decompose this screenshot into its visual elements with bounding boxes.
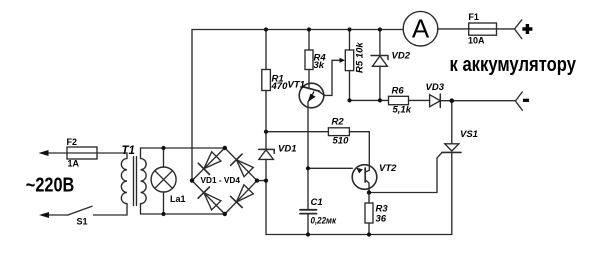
- svg-text:R6: R6: [392, 86, 405, 97]
- svg-text:~220В: ~220В: [26, 175, 75, 197]
- wire: S1 to AC input bottom: [48, 214, 69, 216]
- resistor R6: [389, 96, 409, 104]
- diode VD3: [430, 95, 441, 107]
- svg-text:La1: La1: [170, 194, 186, 204]
- wire: bridge right corner to main column: [257, 180, 266, 182]
- capacitor C1: [300, 210, 317, 214]
- lamp La1: [151, 167, 176, 192]
- wire: R4 to VT1: [308, 70, 310, 85]
- wire: VT1 collector to R5 wiper: [324, 60, 341, 95]
- wire: bottom rail: [266, 234, 452, 236]
- minus sign: [523, 99, 529, 102]
- plus sign: [522, 24, 532, 34]
- svg-text:VD3: VD3: [426, 82, 445, 93]
- wire: R2 row left: [266, 131, 328, 133]
- svg-text:VD1: VD1: [278, 144, 296, 155]
- wire: AC input top lead: [47, 153, 127, 159]
- wire: VT1 emitter down: [307, 102, 309, 168]
- thyristor VS1: [445, 144, 459, 151]
- wire: R4 top lead: [308, 30, 310, 51]
- wire: VS1 anode lead: [451, 101, 453, 144]
- wire: column x266 top rail to R1: [265, 30, 267, 70]
- svg-text:R2: R2: [332, 117, 345, 128]
- svg-text:510: 510: [333, 136, 350, 147]
- wire: top rail: [192, 29, 403, 31]
- svg-text:5,1k: 5,1k: [393, 105, 412, 116]
- bridge edge left-top: [192, 148, 225, 181]
- wire: plus bus vertical (bridge left corner to top rail): [191, 30, 193, 181]
- arrow: R5 wiper: [340, 58, 346, 63]
- wire: T1 primary bottom to S1: [94, 204, 128, 215]
- transformer T1 secondary winding: [141, 159, 147, 204]
- diode VD1 (zener): [259, 149, 275, 153]
- fuse F1: [469, 23, 497, 35]
- wire: VD2 top lead: [379, 30, 381, 56]
- svg-text:C1: C1: [311, 197, 323, 208]
- wire: R6 to VD3: [409, 99, 430, 101]
- resistor R2: [328, 128, 349, 136]
- resistor R3: [365, 203, 373, 223]
- svg-text:VT2: VT2: [379, 163, 397, 174]
- wire: ammeter to F1: [438, 28, 515, 30]
- svg-text:R5 10k: R5 10k: [355, 42, 366, 73]
- diode on LB edge: [204, 193, 221, 210]
- connector: plus terminal: [515, 20, 522, 39]
- wire: VS1 cathode to bottom rail: [451, 152, 453, 234]
- junction dots: [264, 27, 268, 31]
- wire: secondary top to bridge top corner: [141, 148, 225, 159]
- fuse F2: [67, 147, 97, 159]
- wire: VT1 emitter to VT2 base row: [308, 167, 352, 169]
- wire: C1 top lead: [307, 168, 309, 209]
- svg-text:F1: F1: [468, 12, 479, 22]
- svg-text:к аккумулятору: к аккумулятору: [450, 54, 577, 76]
- wire: R2 to VT2 collector: [349, 132, 369, 166]
- diode on BR edge: [236, 185, 253, 202]
- bridge edge left-bottom: [192, 181, 225, 214]
- arrow: AC input bottom: [39, 212, 49, 218]
- wire: R3 to bottom rail: [368, 223, 370, 235]
- arrow: AC input top: [39, 150, 49, 156]
- wire: VD3 to minus terminal: [440, 100, 515, 102]
- svg-text:VD1 - VD4: VD1 - VD4: [201, 175, 241, 185]
- bridge edge top-right: [225, 148, 257, 181]
- svg-text:S1: S1: [77, 217, 88, 227]
- potentiometer R5: [345, 50, 353, 71]
- resistor R4: [305, 50, 313, 70]
- diode on TR edge: [236, 160, 253, 177]
- wire: VD1 to bottom rail: [265, 159, 267, 234]
- svg-text:1A: 1A: [68, 159, 80, 169]
- bridge edge bottom-right: [225, 181, 257, 214]
- svg-text:T1: T1: [122, 145, 135, 157]
- svg-text:F2: F2: [67, 137, 78, 147]
- wire: VT2 emitter to R3: [368, 189, 370, 203]
- ammeter A: [403, 11, 438, 46]
- svg-text:470: 470: [271, 81, 289, 92]
- svg-text:VD2: VD2: [392, 51, 411, 62]
- wire: R1 to VD1: [265, 91, 267, 151]
- svg-text:VT1: VT1: [288, 80, 305, 91]
- wire: R5 bottom lead: [349, 71, 351, 101]
- transistor VT1: [299, 83, 324, 108]
- wire: VD2 bottom lead: [379, 66, 381, 100]
- svg-text:0,22мк: 0,22мк: [311, 216, 337, 227]
- svg-text:36: 36: [376, 214, 387, 225]
- wire: R5 top lead: [349, 30, 351, 51]
- wire: R6 row: [350, 99, 389, 101]
- svg-text:3k: 3k: [314, 60, 325, 71]
- lamp La1 leads: [163, 148, 165, 214]
- switch S1 blade: [69, 206, 93, 215]
- resistor R1: [262, 70, 271, 91]
- transformer T1 primary winding: [121, 159, 127, 204]
- zener diode VD2: [371, 56, 388, 60]
- wire: VS1 gate to VT2 emitter: [369, 152, 442, 192]
- svg-text:VS1: VS1: [460, 129, 478, 140]
- svg-text:A: A: [412, 14, 430, 44]
- transistor VT2: [352, 165, 377, 190]
- transformer T1 core: [134, 157, 137, 206]
- wire: C1 bottom lead: [307, 214, 309, 235]
- wire: secondary bottom to bridge bottom corner: [141, 204, 225, 214]
- connector: minus terminal: [515, 92, 522, 110]
- diode bridge VD1-VD4: diode on LT edge: [204, 152, 221, 169]
- svg-text:10A: 10A: [468, 36, 485, 46]
